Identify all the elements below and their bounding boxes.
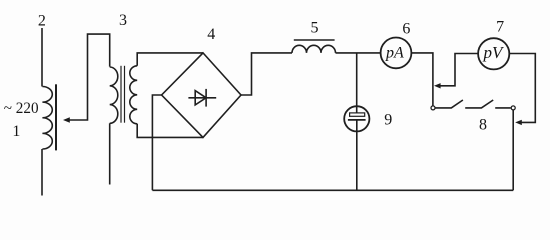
svg-text:pV: pV <box>482 43 505 62</box>
wire: voltmeter right probe to switch-bus wire <box>509 54 535 123</box>
wire: bottom bus <box>152 189 513 191</box>
inductor L 5 core bar <box>294 39 335 41</box>
bridge diode cathode bar <box>205 89 207 107</box>
inductor L 5 winding <box>292 45 336 53</box>
wire: autotransformer bottom lead <box>41 149 43 196</box>
switch 8 left terminal circle <box>431 106 435 110</box>
wire: capacitor branch from top rail junction <box>356 53 358 113</box>
svg-text:3: 3 <box>119 12 127 29</box>
wire: switch right terminal down to bus <box>512 110 514 190</box>
svg-text:4: 4 <box>207 26 215 43</box>
capacitor 9 envelope circle <box>344 106 369 131</box>
svg-text:2: 2 <box>38 12 46 29</box>
capacitor 9 positive plate (hollow) <box>350 113 365 116</box>
ammeter PA 6 body <box>381 38 412 69</box>
voltmeter left probe arrowhead <box>434 83 441 88</box>
autotransformer T1 winding <box>42 87 52 150</box>
wire: autotransformer top lead (node 2) <box>41 28 43 87</box>
svg-text:5: 5 <box>311 20 319 37</box>
transformer T2 core line a <box>120 66 122 123</box>
wiper arrowhead <box>63 117 70 123</box>
wire: bridge DC+ vertex up to top rail <box>241 53 292 95</box>
svg-text:pA: pA <box>385 44 404 61</box>
voltmeter PV 7 body <box>478 38 509 69</box>
switch 8 right terminal circle <box>511 106 515 110</box>
capacitor 9 negative plate <box>348 119 366 121</box>
wire: bridge DC- vertex down to bottom bus <box>152 95 161 190</box>
wire: transformer primary top lead to autotransformer wiper <box>69 34 110 120</box>
voltmeter right probe arrowhead <box>515 120 522 125</box>
wire: transformer primary bottom lead <box>109 123 111 184</box>
wire: voltmeter left probe to ammeter-switch wire <box>440 54 478 86</box>
svg-text:7: 7 <box>496 18 504 35</box>
wire: ammeter to switch left terminal <box>411 53 433 106</box>
bridge rectifier 4 diamond <box>162 53 241 137</box>
transformer T2 secondary winding <box>130 66 137 124</box>
svg-text:9: 9 <box>384 112 392 129</box>
transformer T2 core line b <box>124 66 126 123</box>
svg-text:~ 220: ~ 220 <box>4 100 39 117</box>
transformer T2 primary winding <box>110 67 118 123</box>
bridge diode lead <box>188 97 216 99</box>
wire: secondary top lead to bridge AC node <box>137 53 203 66</box>
switch 8 blades <box>435 100 511 108</box>
wire: inductor to ammeter (junction of capacitor branch) <box>336 52 381 54</box>
svg-text:8: 8 <box>479 117 487 134</box>
bridge diode triangle <box>195 91 206 105</box>
wire: capacitor bottom lead to bus <box>356 120 358 190</box>
wire: secondary bottom lead to bridge AC node <box>137 124 203 138</box>
svg-text:1: 1 <box>12 123 20 140</box>
svg-text:6: 6 <box>402 20 410 37</box>
autotransformer wiper track bar <box>55 84 57 150</box>
